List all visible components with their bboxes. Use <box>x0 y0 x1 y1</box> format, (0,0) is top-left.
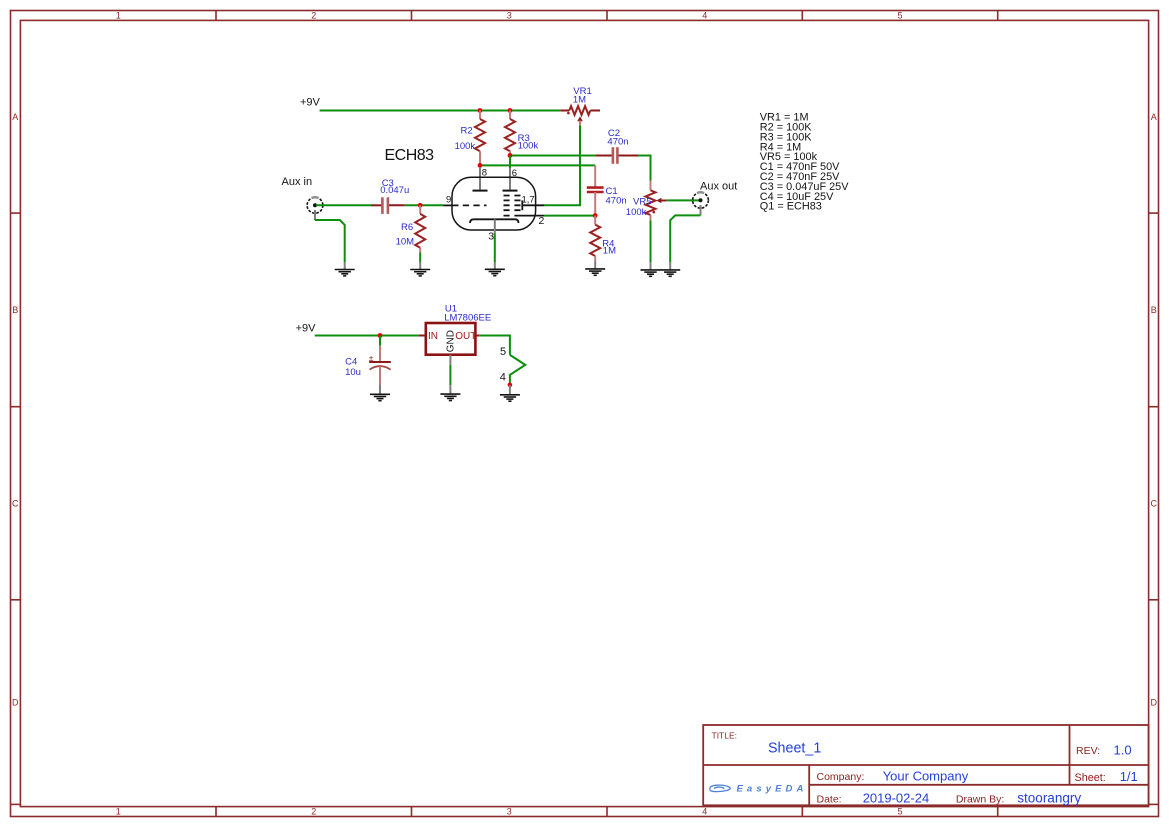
svg-text:100k: 100k <box>626 207 647 218</box>
ground under pin 4 <box>500 395 520 401</box>
node junction rail-R3 <box>508 108 513 113</box>
tube heptode grid rows <box>504 196 523 216</box>
wire R3 junction to pin 6 <box>509 156 511 170</box>
svg-text:+9V: +9V <box>296 322 317 334</box>
svg-text:Sheet_1: Sheet_1 <box>768 741 821 757</box>
svg-text:4: 4 <box>702 11 707 21</box>
svg-text:3: 3 <box>488 231 494 243</box>
svg-text:470n: 470n <box>606 195 627 206</box>
svg-text:EasyEDA: EasyEDA <box>737 784 808 795</box>
wire VR5 wiper to Aux out <box>666 199 699 201</box>
svg-text:Sheet:: Sheet: <box>1075 772 1106 784</box>
ground under tube cathode <box>485 269 505 275</box>
svg-text:470n: 470n <box>607 136 628 147</box>
svg-text:1: 1 <box>116 11 121 21</box>
tube grid 2 pin lead <box>521 215 545 217</box>
wire Aux in to C3 <box>316 204 371 206</box>
svg-text:2: 2 <box>311 806 316 816</box>
svg-text:5: 5 <box>897 806 902 816</box>
svg-text:LM7806EE: LM7806EE <box>444 312 491 323</box>
svg-text:C4: C4 <box>345 357 357 368</box>
capacitor C2 <box>596 147 638 164</box>
svg-text:+9V: +9V <box>300 97 321 109</box>
title block <box>703 725 1148 805</box>
ground under U1 <box>440 394 460 400</box>
svg-text:D: D <box>1151 698 1158 708</box>
ground under Aux in <box>335 270 355 276</box>
wire +9V rail <box>320 110 561 112</box>
svg-text:GND: GND <box>446 330 457 352</box>
wire Aux out to ground <box>670 215 700 262</box>
svg-text:B: B <box>1151 305 1157 315</box>
svg-text:2: 2 <box>539 215 545 227</box>
wire VR5 to ground <box>650 220 652 262</box>
svg-text:stoorangry: stoorangry <box>1017 790 1081 805</box>
svg-text:3: 3 <box>507 11 512 21</box>
potentiometer VR1 <box>560 106 600 125</box>
svg-text:Drawn By:: Drawn By: <box>956 793 1004 805</box>
svg-text:IN: IN <box>428 331 438 342</box>
svg-text:OUT: OUT <box>455 331 476 342</box>
tube pin 8 lead <box>479 167 481 190</box>
wire C2 to VR5 <box>638 156 651 181</box>
svg-text:ECH83: ECH83 <box>385 147 435 164</box>
svg-text:2: 2 <box>311 11 316 21</box>
svg-text:1M: 1M <box>603 245 616 256</box>
svg-text:Aux in: Aux in <box>282 176 313 188</box>
node junction R2-bottom <box>478 163 483 168</box>
svg-text:4: 4 <box>500 372 506 384</box>
svg-text:4: 4 <box>702 806 707 816</box>
svg-text:Company:: Company: <box>817 771 865 783</box>
regulator U1 LM7806EE <box>419 323 479 365</box>
node junction C4 <box>378 333 383 338</box>
resistor R2 <box>475 111 485 166</box>
connector Aux out <box>693 192 709 215</box>
wire jog pin5 to pin4 <box>510 355 525 385</box>
svg-text:1,7: 1,7 <box>522 194 535 205</box>
tube anode plate pin8 <box>473 190 488 192</box>
wire tube pin 3 to ground <box>494 234 496 262</box>
svg-text:100k: 100k <box>518 141 539 152</box>
capacitor C4 polarized <box>369 336 391 395</box>
svg-text:C: C <box>1151 498 1158 508</box>
svg-text:R6: R6 <box>401 222 413 233</box>
ground under VR5 <box>641 270 661 276</box>
svg-text:A: A <box>12 112 18 122</box>
ground under R6 <box>410 270 430 276</box>
ground under C4 <box>370 394 390 400</box>
svg-text:9: 9 <box>446 194 451 205</box>
svg-text:1: 1 <box>116 806 121 816</box>
svg-text:±: ± <box>369 353 374 363</box>
wire R2 to C1 top <box>480 164 595 166</box>
tube V1 ECH83 envelope <box>452 177 536 230</box>
svg-text:A: A <box>1151 112 1157 122</box>
svg-text:VR5: VR5 <box>633 197 651 208</box>
svg-text:10u: 10u <box>345 367 361 378</box>
tube grid 1,7 pin lead <box>522 204 544 206</box>
svg-text:TITLE:: TITLE: <box>712 730 738 740</box>
tube cathode pin 3 lead <box>494 219 496 234</box>
node junction C3-R6 <box>418 203 423 208</box>
wire R3 to C2 <box>510 155 596 157</box>
svg-text:2019-02-24: 2019-02-24 <box>863 790 930 805</box>
tube pin 6 lead <box>509 168 511 190</box>
wire C3 to tube pin 9 <box>405 204 444 206</box>
svg-text:3: 3 <box>507 806 512 816</box>
svg-text:REV:: REV: <box>1076 745 1100 757</box>
svg-text:Aux out: Aux out <box>700 180 737 192</box>
connector Aux in <box>307 197 323 220</box>
node junction R3-bottom <box>508 153 513 158</box>
wire R6 to ground <box>419 253 421 263</box>
svg-text:B: B <box>12 305 18 315</box>
svg-text:1.0: 1.0 <box>1114 742 1132 757</box>
tube cathode <box>470 219 519 223</box>
resistor R4 <box>590 216 600 269</box>
wire U1 GND to ground <box>449 365 451 385</box>
svg-text:C: C <box>12 498 19 508</box>
node junction C1-R4-pin2 <box>593 213 598 218</box>
wire +9V to U1 IN <box>315 335 419 337</box>
ground under R4 <box>585 269 605 275</box>
wire grid 1,7 to VR1 wiper <box>544 125 580 205</box>
wire Aux in to ground <box>315 220 345 262</box>
tube anode plate pin6 <box>503 190 518 192</box>
capacitor C1 <box>587 165 604 215</box>
svg-text:Date:: Date: <box>817 793 842 805</box>
capacitor C3 <box>371 197 405 214</box>
ground under Aux out <box>660 270 680 276</box>
potentiometer VR5 <box>646 181 667 221</box>
svg-text:100k: 100k <box>455 141 476 152</box>
svg-text:Your Company: Your Company <box>883 768 969 783</box>
svg-text:1M: 1M <box>573 95 586 106</box>
svg-text:D: D <box>12 698 19 708</box>
svg-text:1/1: 1/1 <box>1120 769 1138 784</box>
resistor R3 <box>505 111 515 156</box>
svg-text:0.047u: 0.047u <box>380 185 409 196</box>
tube grid pin 9 dashes <box>443 204 452 206</box>
svg-text:5: 5 <box>897 11 902 21</box>
svg-text:5: 5 <box>500 346 506 358</box>
wire U1 OUT to pin 5 <box>479 336 510 355</box>
svg-text:10M: 10M <box>396 237 415 248</box>
node junction rail-R2 <box>478 108 483 113</box>
node junction pin4-ground <box>508 383 513 388</box>
wire pin 2 to C1 bottom <box>544 215 595 217</box>
resistor R6 <box>415 205 425 252</box>
logo EasyEDA <box>710 784 808 795</box>
svg-text:R2: R2 <box>461 126 473 137</box>
